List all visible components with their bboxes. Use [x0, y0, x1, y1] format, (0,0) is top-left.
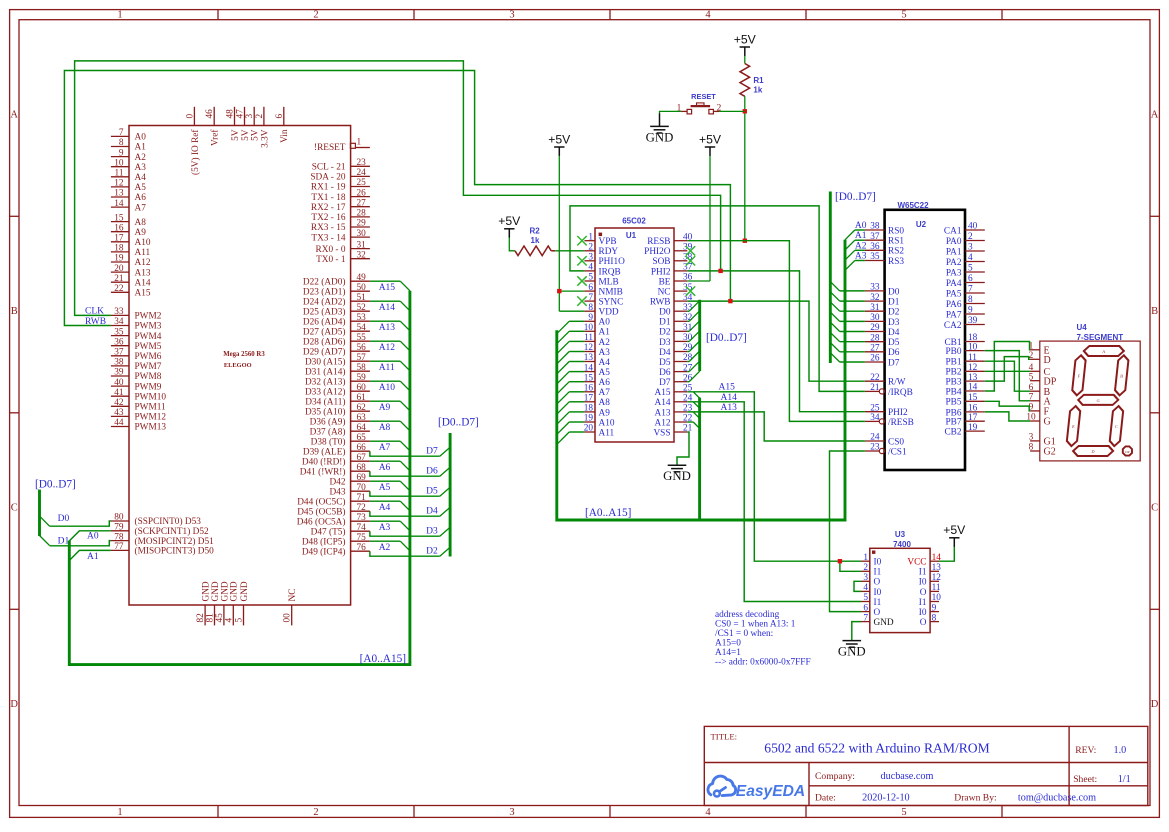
- svg-text:A7: A7: [135, 203, 147, 213]
- svg-text:A15: A15: [135, 289, 151, 299]
- svg-text:70: 70: [357, 483, 367, 493]
- wire U3 GND: [852, 622, 861, 641]
- svg-text:Vref: Vref: [210, 129, 221, 146]
- svg-text:5V: 5V: [231, 129, 241, 141]
- svg-text:PWM13: PWM13: [135, 423, 167, 433]
- svg-text:!RESET: !RESET: [314, 143, 346, 153]
- svg-text:47: 47: [236, 109, 246, 119]
- svg-text:54: 54: [357, 323, 367, 333]
- svg-text:17: 17: [114, 234, 124, 244]
- svg-text:66: 66: [357, 443, 367, 453]
- svg-text:11: 11: [932, 583, 941, 593]
- svg-text:A12: A12: [379, 343, 396, 353]
- bus entry D0 (left): [40, 516, 50, 526]
- svg-text:0: 0: [185, 114, 195, 119]
- svg-text:R2: R2: [530, 227, 541, 236]
- svg-text:15: 15: [968, 393, 978, 403]
- svg-text:PWM10: PWM10: [135, 392, 167, 402]
- svg-text:RX3 - 15: RX3 - 15: [311, 223, 346, 233]
- svg-text:5: 5: [901, 807, 906, 818]
- no-connect flags U1: [577, 236, 586, 245]
- svg-text:A1: A1: [87, 552, 99, 562]
- svg-text:51: 51: [357, 293, 367, 303]
- svg-text:G: G: [1096, 398, 1100, 403]
- svg-text:67: 67: [357, 453, 367, 463]
- svg-text:PWM4: PWM4: [135, 332, 162, 342]
- svg-text:5V: 5V: [251, 129, 261, 141]
- power +5V (U1 NMIB/VDD): [548, 132, 571, 156]
- net label CLK: [85, 307, 104, 317]
- svg-text:B: B: [11, 306, 18, 317]
- svg-text:PB1: PB1: [945, 358, 961, 368]
- svg-text:A10: A10: [599, 418, 615, 428]
- svg-text:D6: D6: [888, 348, 900, 358]
- svg-text:37: 37: [870, 232, 880, 242]
- svg-text:6: 6: [275, 114, 285, 119]
- svg-text:D4: D4: [426, 507, 438, 517]
- svg-text:A5: A5: [135, 183, 147, 193]
- svg-text:13: 13: [932, 563, 942, 573]
- svg-text:IRQB: IRQB: [599, 267, 621, 277]
- svg-text:ELEGOO: ELEGOO: [224, 362, 252, 369]
- resistor R2 1k: [515, 227, 555, 256]
- svg-text:D23 (AD1): D23 (AD1): [303, 286, 346, 297]
- svg-text:14: 14: [584, 363, 594, 373]
- svg-text:4: 4: [968, 253, 973, 263]
- svg-text:A14: A14: [654, 398, 670, 408]
- svg-text:RWB: RWB: [650, 298, 671, 308]
- wire PB3 to 7seg D(2): [985, 357, 1030, 382]
- wire U1 A12 stub: [687, 421, 693, 423]
- svg-text:5: 5: [1029, 372, 1034, 382]
- svg-text:17: 17: [968, 413, 978, 423]
- svg-text:65C02: 65C02: [622, 217, 646, 226]
- net label A13: [721, 403, 738, 413]
- svg-text:GND: GND: [838, 645, 866, 659]
- svg-text:78: 78: [114, 532, 124, 542]
- wire U3 gate1 out to gate2 in (pins 3-4): [854, 581, 861, 591]
- svg-text:A5: A5: [379, 483, 391, 493]
- svg-text:9: 9: [932, 603, 937, 613]
- IC U1 65C02: [584, 217, 693, 443]
- svg-text:D6: D6: [426, 467, 438, 477]
- svg-text:15: 15: [584, 373, 594, 383]
- svg-text:2: 2: [863, 563, 868, 573]
- svg-text:A4: A4: [135, 173, 147, 183]
- svg-text:RX0 - 0: RX0 - 0: [316, 245, 346, 255]
- net label A1 (Arduino): [87, 552, 99, 562]
- svg-text:7-SEGMENT: 7-SEGMENT: [1077, 333, 1124, 342]
- svg-text:3: 3: [968, 243, 973, 253]
- svg-text:3: 3: [245, 113, 255, 118]
- svg-text:64: 64: [357, 423, 367, 433]
- power +5V (U3): [943, 523, 966, 547]
- svg-text:65: 65: [357, 433, 367, 443]
- svg-text:19: 19: [114, 254, 124, 264]
- svg-text:CS0 = 1 when A13: 1: CS0 = 1 when A13: 1: [715, 619, 796, 629]
- bus entry D1 (left): [40, 536, 50, 546]
- IC U4 7-SEGMENT: [1026, 323, 1140, 461]
- svg-text:Drawn By:: Drawn By:: [954, 792, 996, 803]
- junction U3 pin1/2: [838, 559, 842, 563]
- svg-text:D48 (ICP5): D48 (ICP5): [302, 536, 346, 547]
- wire R2 to RDY: [555, 250, 584, 252]
- svg-text:A13: A13: [654, 408, 670, 418]
- svg-text:PWM2: PWM2: [135, 312, 162, 322]
- svg-text:RS1: RS1: [888, 237, 904, 247]
- svg-text:A7: A7: [599, 388, 611, 398]
- svg-text:GND: GND: [240, 581, 250, 601]
- svg-text:4: 4: [705, 807, 711, 818]
- svg-text:3: 3: [509, 9, 514, 20]
- svg-text:C: C: [1151, 503, 1158, 514]
- svg-text:79: 79: [114, 523, 124, 533]
- svg-text:+5V: +5V: [548, 132, 571, 146]
- svg-text:D5: D5: [888, 338, 900, 348]
- svg-text:56: 56: [357, 343, 367, 353]
- net label RWB: [85, 317, 106, 327]
- svg-text:39: 39: [968, 316, 978, 326]
- svg-text:A0: A0: [87, 532, 99, 542]
- svg-text:60: 60: [357, 383, 367, 393]
- wires Arduino D7..D2 nets: [370, 447, 450, 557]
- svg-text:PHI1O: PHI1O: [599, 257, 626, 267]
- svg-text:ducbase.com: ducbase.com: [881, 771, 934, 782]
- svg-text:73: 73: [357, 513, 367, 523]
- svg-text:A3: A3: [135, 163, 147, 173]
- svg-text:7400: 7400: [893, 540, 911, 549]
- svg-text:W65C22: W65C22: [897, 201, 929, 210]
- svg-text:8: 8: [932, 613, 937, 623]
- svg-text:24: 24: [357, 168, 367, 178]
- note address decoding: [715, 610, 811, 668]
- svg-text:O: O: [874, 578, 881, 588]
- svg-text:22: 22: [870, 373, 880, 383]
- svg-text:SYNC: SYNC: [599, 298, 624, 308]
- svg-text:D39 (ALE): D39 (ALE): [303, 446, 346, 457]
- wire SW pin2 to R1 junction: [713, 110, 744, 112]
- svg-text:D29 (AD7): D29 (AD7): [303, 346, 346, 357]
- svg-text:77: 77: [114, 542, 124, 552]
- svg-text:00: 00: [283, 613, 293, 623]
- svg-text:[A0..A15]: [A0..A15]: [585, 507, 631, 519]
- svg-text:D31 (A14): D31 (A14): [305, 366, 346, 377]
- svg-text:6502 and 6522 with Arduino RAM: 6502 and 6522 with Arduino RAM/ROM: [764, 741, 989, 756]
- svg-text:A14: A14: [135, 278, 151, 288]
- svg-text:D1: D1: [58, 537, 70, 547]
- svg-text:A15=0: A15=0: [715, 638, 741, 648]
- svg-text:53: 53: [357, 313, 367, 323]
- svg-text:D7: D7: [888, 358, 900, 368]
- svg-text:D25 (AD3): D25 (AD3): [303, 306, 346, 317]
- IC U2 W65C22: [865, 201, 985, 470]
- svg-text:5: 5: [968, 264, 973, 274]
- svg-text:40: 40: [114, 378, 124, 388]
- svg-text:26: 26: [870, 354, 880, 364]
- svg-text:A4: A4: [379, 503, 391, 513]
- svg-text:7: 7: [863, 613, 868, 623]
- wire PB5 to 7seg F(9): [985, 401, 1030, 411]
- svg-text:PWM5: PWM5: [135, 342, 162, 352]
- svg-text:33: 33: [114, 307, 124, 317]
- svg-text:(SCKPCINT1) D52: (SCKPCINT1) D52: [135, 526, 209, 537]
- svg-text:23: 23: [870, 443, 880, 453]
- svg-text:A11: A11: [379, 363, 395, 373]
- svg-text:25: 25: [357, 178, 367, 188]
- svg-text:21: 21: [870, 383, 880, 393]
- svg-text:74: 74: [357, 523, 367, 533]
- svg-text:D33 (A12): D33 (A12): [305, 386, 346, 397]
- svg-text:44: 44: [114, 418, 124, 428]
- wire U1 VSS to GND: [677, 432, 689, 465]
- svg-text:D0: D0: [659, 308, 671, 318]
- svg-text:D0: D0: [58, 514, 70, 524]
- svg-text:[D0..D7]: [D0..D7]: [438, 417, 479, 429]
- svg-text:I0: I0: [919, 608, 927, 618]
- svg-text:RS2: RS2: [888, 247, 904, 257]
- svg-text:A1: A1: [599, 328, 611, 338]
- svg-text:A3: A3: [379, 523, 391, 533]
- svg-text:MLB: MLB: [599, 277, 619, 287]
- svg-text:2020-12-10: 2020-12-10: [862, 792, 910, 803]
- svg-text:D: D: [1044, 355, 1051, 366]
- svg-text:1k: 1k: [531, 236, 540, 245]
- svg-text:5: 5: [863, 593, 868, 603]
- svg-text:D34 (A11): D34 (A11): [305, 396, 345, 407]
- svg-text:tom@ducbase.com: tom@ducbase.com: [1018, 792, 1096, 803]
- svg-text:1/1: 1/1: [1118, 774, 1131, 785]
- wire A1 to pin77: [69, 550, 111, 560]
- svg-text:11: 11: [968, 353, 977, 363]
- wire A15 net (U1 pin25 to U3 pins1/2): [687, 392, 861, 572]
- net label A14: [721, 393, 738, 403]
- svg-text:GND: GND: [663, 469, 691, 483]
- svg-text:6: 6: [863, 603, 868, 613]
- wire CLK net: [75, 61, 865, 412]
- svg-text:A: A: [10, 110, 18, 121]
- svg-text:15: 15: [114, 213, 124, 223]
- svg-text:D46 (OC5A): D46 (OC5A): [297, 516, 346, 527]
- svg-text:PWM11: PWM11: [135, 403, 167, 413]
- svg-text:/CS1 = 0 when:: /CS1 = 0 when:: [715, 629, 773, 639]
- svg-text:33: 33: [870, 283, 880, 293]
- switch RESET: [677, 92, 722, 114]
- svg-text:61: 61: [357, 393, 367, 403]
- svg-text:A9: A9: [599, 408, 611, 418]
- junction R1/SW2: [743, 109, 747, 113]
- wire R1 to RESET/RESB net: [744, 96, 746, 240]
- svg-text:9: 9: [119, 148, 124, 158]
- svg-text:1: 1: [863, 553, 868, 563]
- svg-text:A14=1: A14=1: [715, 648, 741, 658]
- svg-text:49: 49: [357, 273, 367, 283]
- svg-text:16: 16: [114, 223, 124, 233]
- wire PB2 to 7seg C(4): [985, 370, 1030, 372]
- svg-text:D1: D1: [659, 318, 671, 328]
- svg-text:D38 (T0): D38 (T0): [311, 436, 346, 447]
- svg-text:7: 7: [968, 285, 973, 295]
- svg-text:68: 68: [357, 463, 367, 473]
- svg-text:A15: A15: [654, 388, 670, 398]
- svg-text:3.3V: 3.3V: [260, 129, 270, 148]
- power +5V (R1 top): [734, 32, 757, 56]
- svg-text:DP: DP: [1044, 376, 1057, 387]
- svg-text:RX2 - 17: RX2 - 17: [311, 203, 346, 213]
- svg-text:GND: GND: [646, 130, 674, 144]
- svg-text:[D0..D7]: [D0..D7]: [706, 332, 747, 344]
- wire SW pin1 to GND: [660, 111, 688, 114]
- svg-text:D35 (A10): D35 (A10): [305, 406, 346, 417]
- wire /CS1 net (U3 pin6 to U2 /CS1): [830, 451, 865, 612]
- svg-text:A11: A11: [135, 248, 151, 258]
- wire +5V to NMIB/VDD: [559, 156, 584, 312]
- svg-text:RS0: RS0: [888, 226, 904, 236]
- svg-text:38: 38: [114, 358, 124, 368]
- svg-text:4: 4: [224, 618, 234, 623]
- bus [A0..A15] (Arduino loop): [69, 291, 410, 665]
- title block: [704, 726, 1148, 805]
- wires U2 D0..D7 from bus: [830, 282, 865, 362]
- wire PB0 to 7seg A(7): [985, 351, 1030, 401]
- svg-text:D7: D7: [659, 378, 671, 388]
- svg-text:4: 4: [588, 263, 593, 273]
- svg-text:(MISOPCINT3) D50: (MISOPCINT3) D50: [135, 546, 215, 557]
- svg-text:A: A: [1102, 349, 1106, 354]
- svg-text:VDD: VDD: [599, 308, 619, 318]
- svg-text:R1: R1: [753, 76, 764, 85]
- svg-text:2: 2: [313, 9, 318, 20]
- svg-text:A13: A13: [379, 323, 396, 333]
- svg-text:D1: D1: [888, 298, 900, 308]
- svg-text:69: 69: [357, 473, 367, 483]
- bus entries U1 A15..A12: [693, 392, 699, 520]
- svg-text:10: 10: [584, 323, 594, 333]
- svg-text:31: 31: [357, 240, 367, 250]
- svg-text:D: D: [10, 699, 18, 710]
- svg-text:O: O: [874, 608, 881, 618]
- svg-text:21: 21: [114, 274, 124, 284]
- svg-text:20: 20: [114, 264, 124, 274]
- svg-text:A2: A2: [379, 543, 391, 553]
- svg-text:A4: A4: [599, 358, 611, 368]
- junction NMIB: [557, 289, 561, 293]
- svg-text:24: 24: [870, 433, 880, 443]
- svg-text:1: 1: [117, 9, 122, 20]
- svg-text:D45 (OC5B): D45 (OC5B): [297, 506, 345, 517]
- svg-text:12: 12: [932, 573, 942, 583]
- svg-text:PB4: PB4: [945, 387, 961, 397]
- svg-text:RS3: RS3: [888, 257, 904, 267]
- svg-text:D7: D7: [426, 447, 438, 457]
- svg-text:D24 (AD2): D24 (AD2): [303, 296, 346, 307]
- svg-text:D2: D2: [659, 328, 671, 338]
- svg-text:PB2: PB2: [945, 368, 961, 378]
- svg-text:GND: GND: [230, 581, 240, 601]
- svg-text:19: 19: [584, 414, 594, 424]
- svg-text:D22 (AD0): D22 (AD0): [303, 276, 346, 287]
- svg-text:A2: A2: [599, 338, 611, 348]
- svg-text:17: 17: [584, 394, 594, 404]
- svg-text:43: 43: [114, 408, 124, 418]
- svg-text:12: 12: [968, 363, 978, 373]
- svg-text:D32 (A13): D32 (A13): [305, 376, 346, 387]
- svg-text:14: 14: [968, 383, 978, 393]
- svg-text:VSS: VSS: [653, 428, 670, 438]
- svg-text:1k: 1k: [753, 86, 762, 95]
- svg-text:A12: A12: [135, 258, 151, 268]
- svg-text:A8: A8: [379, 423, 391, 433]
- svg-text:48: 48: [226, 109, 236, 119]
- wire PB4 to 7seg E(1): [985, 342, 1030, 392]
- svg-text:D49 (ICP4): D49 (ICP4): [302, 546, 346, 557]
- EasyEDA logo: [708, 776, 805, 800]
- svg-text:D4: D4: [659, 348, 671, 358]
- svg-text:Vin: Vin: [280, 129, 290, 143]
- svg-text:I1: I1: [919, 598, 927, 608]
- svg-text:26: 26: [357, 188, 367, 198]
- svg-text:4: 4: [863, 583, 868, 593]
- svg-text:19: 19: [968, 423, 978, 433]
- svg-text:SOB: SOB: [652, 257, 670, 267]
- svg-text:A0: A0: [135, 133, 147, 143]
- svg-text:38: 38: [870, 222, 880, 232]
- ground GND (switch): [646, 114, 674, 145]
- svg-text:TX3 - 14: TX3 - 14: [311, 233, 345, 243]
- net label D0 (Arduino): [58, 514, 70, 524]
- svg-text:D0: D0: [888, 287, 900, 297]
- svg-text:3: 3: [1029, 433, 1034, 443]
- svg-text:I1: I1: [874, 598, 882, 608]
- svg-text:O: O: [920, 588, 927, 598]
- svg-text:PA5: PA5: [946, 289, 962, 299]
- svg-text:CA1: CA1: [944, 226, 962, 236]
- svg-text:A14: A14: [379, 303, 396, 313]
- svg-text:D41 (!WR!): D41 (!WR!): [300, 466, 346, 477]
- svg-text:PHI2O: PHI2O: [644, 247, 671, 257]
- svg-text:63: 63: [357, 413, 367, 423]
- svg-text:B: B: [1151, 306, 1158, 317]
- svg-text:SCL - 21: SCL - 21: [312, 163, 346, 173]
- svg-text:A9: A9: [379, 403, 391, 413]
- svg-text:GND: GND: [874, 618, 894, 628]
- svg-text:11: 11: [115, 169, 124, 179]
- svg-text:U3: U3: [895, 530, 906, 539]
- svg-text:34: 34: [114, 317, 124, 327]
- svg-text:13: 13: [114, 189, 124, 199]
- svg-text:8: 8: [119, 138, 124, 148]
- svg-text:I0: I0: [874, 558, 882, 568]
- svg-text:5: 5: [588, 273, 593, 283]
- svg-text:76: 76: [357, 543, 367, 553]
- svg-text:28: 28: [870, 333, 880, 343]
- svg-text:2: 2: [968, 232, 973, 242]
- wire RESB net: [687, 241, 865, 422]
- svg-text:+5V: +5V: [734, 32, 757, 46]
- svg-text:27: 27: [357, 198, 367, 208]
- svg-text:12: 12: [114, 179, 124, 189]
- svg-text:18: 18: [114, 244, 124, 254]
- svg-text:NC: NC: [658, 287, 671, 297]
- svg-text:28: 28: [357, 209, 367, 219]
- junction RWB: [728, 299, 732, 303]
- svg-text:D28 (AD6): D28 (AD6): [303, 336, 346, 347]
- power +5V (R2): [498, 214, 521, 238]
- svg-text:29: 29: [357, 219, 367, 229]
- svg-text:PHI2: PHI2: [888, 408, 908, 418]
- wires U2 RS0..RS3 from A bus: [845, 221, 867, 270]
- svg-text:CA2: CA2: [944, 321, 962, 331]
- svg-text:41: 41: [114, 388, 124, 398]
